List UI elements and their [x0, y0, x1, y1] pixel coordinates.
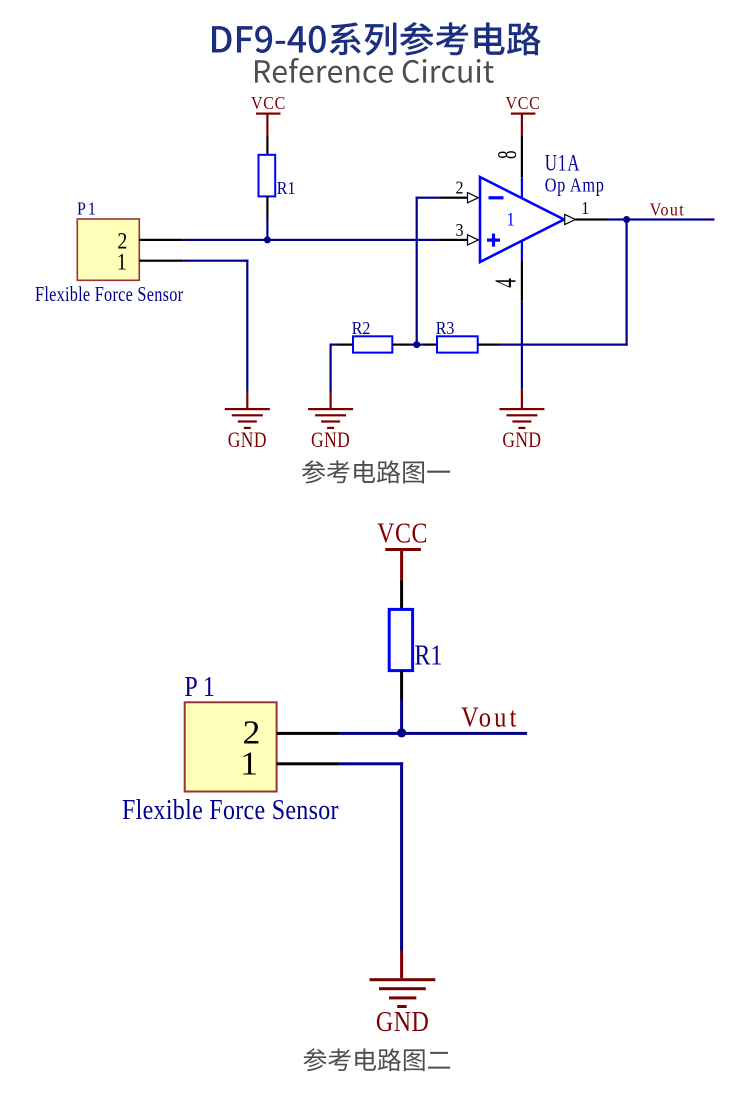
- ground symbol GND (circuit 2): [370, 978, 436, 1037]
- junction dot output: [623, 216, 630, 223]
- opamp pin 2: [438, 197, 467, 199]
- svg-text:1: 1: [581, 198, 589, 218]
- R2 right pin: [392, 344, 409, 346]
- svg-text:3: 3: [455, 220, 463, 240]
- svg-text:2: 2: [455, 177, 463, 197]
- opamp output pin 1: [565, 214, 576, 224]
- svg-text:GND: GND: [502, 428, 541, 452]
- svg-text:Flexible Force Sensor: Flexible Force Sensor: [122, 794, 339, 825]
- wire feedback vertical: [626, 220, 628, 346]
- wire R2 left to GND: [330, 344, 338, 346]
- svg-text:VCC: VCC: [377, 517, 428, 548]
- wire output to Vout: [607, 218, 715, 220]
- op-amp U1A body: [480, 177, 564, 262]
- svg-text:VCC: VCC: [251, 93, 286, 113]
- caption 2: [303, 1048, 450, 1071]
- svg-text:1: 1: [117, 249, 127, 275]
- P1 pin 1 stub (circuit 2): [277, 762, 340, 765]
- page title: [212, 22, 541, 56]
- power VCC (circuit 1, over opamp pin 8): [506, 93, 541, 136]
- wire pin 4 to GND: [521, 301, 523, 388]
- wire pin1 to GND (circuit 2): [340, 762, 404, 765]
- resistor R2: [352, 318, 393, 353]
- connector P1 (circuit 1): [77, 198, 139, 280]
- wire R1 bottom (circuit 2): [400, 671, 403, 700]
- svg-text:Vout: Vout: [650, 200, 685, 220]
- ground symbol GND (under R2): [308, 408, 353, 453]
- opamp pin 4: [521, 241, 523, 261]
- svg-text:GND: GND: [311, 428, 350, 452]
- ground symbol GND (under opamp): [499, 408, 544, 453]
- wire R1 bottom pin: [266, 196, 268, 218]
- junction dot (circuit 2): [397, 728, 406, 737]
- connector P1 (circuit 2): [184, 671, 276, 791]
- svg-text:U1A: U1A: [545, 151, 581, 176]
- R2 left pin: [338, 344, 354, 346]
- power VCC (circuit 1, over R1): [251, 93, 286, 136]
- wire pin2 to Vout (circuit 2): [340, 732, 527, 735]
- svg-text:R1: R1: [277, 178, 296, 198]
- R3 left pin: [424, 344, 437, 346]
- svg-text:1: 1: [507, 208, 515, 229]
- P1 pin 2 stub (circuit 2): [277, 732, 340, 735]
- wire VCC to R1 (circuit 2): [400, 581, 403, 610]
- svg-text:P1: P1: [77, 198, 98, 218]
- caption 1: [302, 460, 450, 483]
- P1 pin 1 stub: [139, 260, 183, 262]
- svg-text:P 1: P 1: [184, 671, 214, 702]
- wire opamp pin2 branch vertical: [416, 197, 418, 346]
- svg-text:8: 8: [492, 150, 522, 159]
- ground symbol GND (under P1): [225, 408, 270, 453]
- R3 right pin: [478, 344, 500, 346]
- svg-text:GND: GND: [228, 428, 267, 452]
- wire P1 pin1 down to GND: [184, 260, 249, 262]
- svg-text:Op Amp: Op Amp: [545, 174, 605, 196]
- resistor R1 (circuit 1): [259, 155, 296, 198]
- opamp pin 3: [438, 239, 467, 241]
- wire R3 to feedback: [500, 344, 628, 346]
- svg-text:Vout: Vout: [461, 701, 520, 733]
- svg-text:4: 4: [489, 278, 523, 288]
- svg-text:GND: GND: [376, 1006, 429, 1037]
- junction dot R2/R3/feedback: [413, 341, 420, 348]
- resistor R3: [436, 318, 478, 353]
- svg-text:R3: R3: [436, 318, 455, 338]
- wire VCC to R1: [266, 136, 268, 155]
- svg-text:Flexible Force Sensor: Flexible Force Sensor: [35, 283, 184, 306]
- page subtitle: [255, 58, 494, 83]
- wire R2-R3 node: [410, 344, 425, 346]
- junction dot at R1/net: [264, 236, 271, 243]
- wire P1 pin2 to opamp pin3: [184, 239, 439, 241]
- svg-text:1: 1: [240, 745, 258, 782]
- resistor R1 (circuit 2): [389, 609, 442, 671]
- opamp pin 8: [521, 136, 523, 177]
- svg-text:VCC: VCC: [506, 93, 541, 113]
- power VCC (circuit 2): [377, 517, 428, 580]
- svg-text:R1: R1: [414, 640, 442, 671]
- svg-text:R2: R2: [352, 318, 371, 338]
- P1 pin 2 stub: [139, 239, 183, 241]
- wire R1 to net: [266, 218, 268, 239]
